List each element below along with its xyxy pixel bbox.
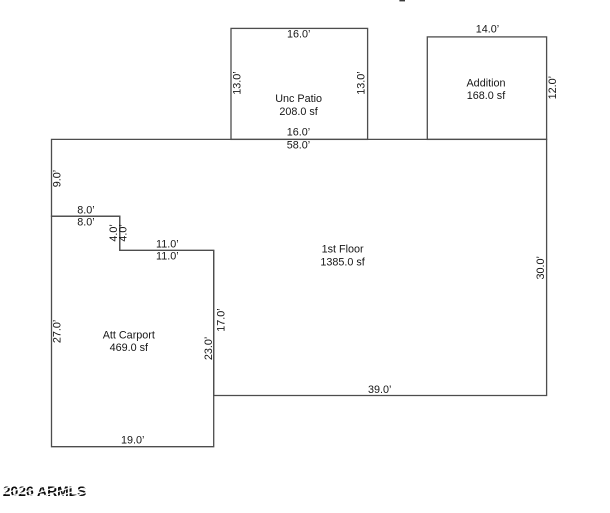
svg-text:9.0’: 9.0’ [52,170,64,187]
svg-text:16.0’: 16.0’ [287,127,310,139]
wall outline 1st Floor [52,139,547,395]
svg-text:8.0’: 8.0’ [77,205,94,217]
svg-text:1385.0 sf: 1385.0 sf [320,256,365,268]
svg-text:168.0 sf: 168.0 sf [467,90,506,102]
svg-text:23.0’: 23.0’ [203,337,215,360]
svg-text:13.0’: 13.0’ [356,71,368,94]
svg-text:27.0’: 27.0’ [52,320,64,343]
svg-text:Att Carport: Att Carport [103,329,155,341]
svg-text:30.0’: 30.0’ [535,256,547,279]
svg-text:2026 ARMLS: 2026 ARMLS [3,483,87,499]
svg-text:Addition: Addition [466,77,505,89]
wall outline Addition [427,37,546,139]
room label Att Carport [103,329,155,354]
room label 1st Floor [320,244,365,269]
svg-text:58.0’: 58.0’ [287,140,310,152]
svg-text:4.0’: 4.0’ [118,224,130,241]
room label Unc Patio [275,93,322,118]
svg-text:11.0’: 11.0’ [156,239,179,251]
svg-text:208.0 sf: 208.0 sf [279,106,318,118]
svg-text:11.0’: 11.0’ [156,251,179,263]
wall outline Att Carport [52,216,214,447]
svg-text:Unc Patio: Unc Patio [275,93,322,105]
svg-text:8.0’: 8.0’ [77,217,94,229]
svg-text:16.0’: 16.0’ [287,28,310,40]
svg-text:469.0 sf: 469.0 sf [110,342,149,354]
svg-text:1st Floor: 1st Floor [322,244,364,256]
svg-text:12.0’: 12.0’ [547,76,559,99]
room label Addition [466,77,506,102]
svg-text:19.0’: 19.0’ [121,435,144,447]
svg-text:14.0’: 14.0’ [476,23,499,35]
cropped text artifact top center [399,0,405,1]
svg-text:39.0’: 39.0’ [368,384,391,396]
svg-text:13.0’: 13.0’ [231,71,243,94]
svg-text:17.0’: 17.0’ [215,308,227,331]
wall outline Unc Patio [231,28,368,139]
